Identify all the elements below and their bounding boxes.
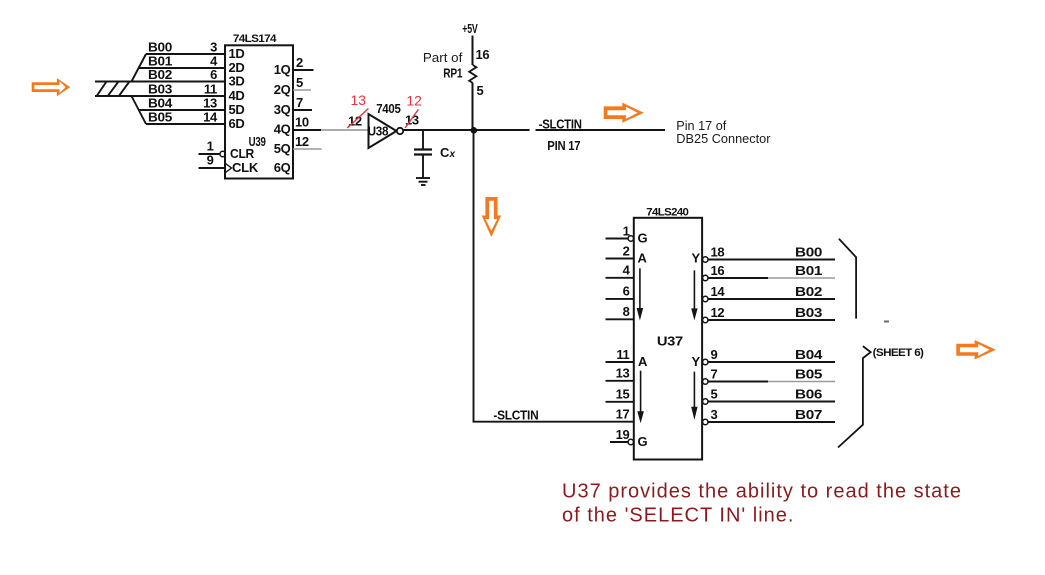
orange arrow (bus input, left) — [32, 78, 70, 96]
svg-text:of the 'SELECT IN' line.: of the 'SELECT IN' line. — [562, 505, 794, 527]
svg-text:+5V: +5V — [462, 21, 478, 36]
svg-text:1D: 1D — [229, 46, 245, 61]
U37 output pin 3 bubble and wire B07 — [703, 407, 835, 425]
wire B05 to U39 pin 14 — [146, 123, 226, 125]
svg-text:B05: B05 — [148, 110, 172, 125]
svg-text:8: 8 — [623, 304, 630, 319]
U37 pin 4 input — [606, 263, 635, 278]
svg-text:RP1: RP1 — [443, 66, 462, 81]
svg-text:B02: B02 — [795, 284, 822, 299]
svg-text:5D: 5D — [229, 102, 245, 117]
U37 lower-left direction arrow — [637, 371, 644, 424]
resistor RP1 (part of) — [469, 65, 476, 83]
svg-text:12: 12 — [711, 305, 725, 320]
wire B00 to U39 pin 3 — [146, 53, 226, 55]
svg-text:13: 13 — [203, 96, 217, 111]
svg-text:U37 provides the ability to re: U37 provides the ability to read the sta… — [562, 481, 962, 503]
wire bus fan-out top diagonal — [132, 54, 147, 82]
svg-text:6: 6 — [210, 67, 217, 82]
svg-text:13: 13 — [616, 366, 630, 381]
wire -SLCTIN into U37 pin 17 — [473, 421, 634, 423]
IC U39 74LS174 body — [225, 45, 293, 178]
svg-text:1: 1 — [207, 139, 214, 154]
U37 output pin 18 bubble and wire B00 — [703, 244, 835, 262]
svg-text:10: 10 — [295, 115, 309, 130]
U37 output pin 7 bubble and wire B05 — [703, 366, 835, 384]
svg-text:14: 14 — [203, 110, 218, 125]
svg-text:G: G — [638, 231, 648, 246]
U37 pin 11 input A — [606, 347, 649, 369]
svg-text:Pin 17 of: Pin 17 of — [676, 119, 727, 133]
svg-text:Y: Y — [692, 354, 701, 369]
U37 upper-left direction arrow — [637, 268, 644, 320]
svg-text:2Q: 2Q — [274, 82, 291, 97]
svg-text:3: 3 — [210, 40, 217, 55]
svg-text:16: 16 — [711, 263, 725, 278]
U37 pin 6 input — [606, 284, 635, 299]
svg-text:G: G — [638, 434, 648, 449]
svg-text:-SLCTIN: -SLCTIN — [493, 408, 538, 423]
svg-text:13: 13 — [351, 92, 367, 108]
U37 output pin 16 bubble and wire B01 — [703, 263, 835, 281]
svg-text:x: x — [449, 149, 456, 160]
U37 output pin 9 bubble and wire B04 — [703, 347, 835, 365]
junction node — [471, 127, 478, 134]
svg-text:12: 12 — [295, 134, 309, 149]
bracket upper (B00-B03 group) — [839, 239, 856, 319]
svg-text:14: 14 — [711, 284, 726, 299]
svg-text:B00: B00 — [148, 40, 172, 55]
svg-text:3Q: 3Q — [274, 102, 291, 117]
svg-text:7: 7 — [296, 95, 303, 110]
svg-text:B06: B06 — [795, 386, 822, 401]
svg-text:CLK: CLK — [232, 160, 259, 175]
svg-text:A: A — [638, 251, 648, 266]
U37 output pin 14 bubble and wire B02 — [703, 284, 835, 302]
red slash over input pin number — [347, 109, 368, 129]
svg-text:B07: B07 — [795, 407, 822, 422]
svg-text:74LS240: 74LS240 — [646, 206, 688, 218]
svg-text:A: A — [638, 354, 648, 369]
svg-text:5Q: 5Q — [274, 141, 291, 156]
svg-text:B03: B03 — [148, 82, 172, 97]
U39 input labels 1D-6D — [229, 46, 245, 131]
svg-text:15: 15 — [616, 387, 630, 402]
U37 pin 2 input A — [606, 243, 648, 265]
svg-text:6Q: 6Q — [274, 160, 291, 175]
svg-text:PIN 17: PIN 17 — [547, 138, 580, 153]
U39 CLR input pin 1 — [199, 139, 255, 162]
wire +5V to resistor — [472, 36, 474, 66]
svg-text:B02: B02 — [148, 67, 172, 82]
svg-text:17: 17 — [616, 407, 630, 422]
svg-text:5: 5 — [477, 83, 484, 98]
U39 output pin 5 stub — [293, 89, 311, 91]
U39 output pin 7 stub — [293, 109, 312, 111]
svg-text:16: 16 — [476, 47, 490, 62]
svg-text:11: 11 — [204, 82, 217, 97]
svg-text:B03: B03 — [795, 305, 822, 320]
IC U37 74LS240 body — [634, 218, 702, 460]
svg-text:1Q: 1Q — [274, 62, 291, 77]
bracket stray dash — [884, 321, 889, 323]
red slash over output pin number — [405, 109, 418, 128]
U37 pin 1 input G (enable) — [606, 223, 648, 245]
ground — [416, 178, 430, 185]
svg-text:Part of: Part of — [423, 51, 463, 65]
svg-text:5: 5 — [296, 75, 303, 90]
svg-text:74LS174: 74LS174 — [233, 33, 278, 45]
wire junction down to U37 pin 17 — [473, 130, 475, 422]
wire resistor to junction — [472, 83, 474, 130]
svg-text:6: 6 — [623, 284, 630, 299]
orange arrow (to DB25 connector) — [604, 103, 644, 123]
svg-text:6D: 6D — [229, 116, 245, 131]
svg-text:9: 9 — [711, 347, 718, 362]
U37 upper-right direction arrow — [691, 270, 697, 320]
svg-text:B04: B04 — [148, 96, 173, 111]
svg-text:4Q: 4Q — [274, 122, 291, 137]
svg-text:DB25 Connector: DB25 Connector — [676, 132, 770, 146]
svg-text:7405: 7405 — [376, 101, 400, 116]
U39 output pin 2 stub — [293, 69, 314, 71]
svg-text:2: 2 — [623, 243, 630, 258]
svg-text:3D: 3D — [229, 74, 245, 89]
svg-text:11: 11 — [616, 347, 629, 362]
wire bus fan-out bottom diagonal — [132, 96, 147, 124]
svg-text:7: 7 — [711, 366, 718, 381]
svg-text:4D: 4D — [229, 88, 245, 103]
wire -SLCTIN to DB25 pin 17 — [474, 129, 530, 131]
inverter U38 7405 triangle — [369, 114, 397, 148]
svg-text:(SHEET 6): (SHEET 6) — [873, 347, 925, 359]
svg-text:C: C — [440, 145, 450, 160]
U37 lower-right direction arrow — [691, 372, 697, 420]
svg-text:1: 1 — [623, 223, 630, 238]
U37 pin 8 input — [606, 304, 635, 319]
U39 output pin 12 stub — [293, 148, 322, 150]
orange arrow (down, to U37) — [482, 197, 501, 237]
bus (hatched data bus) — [95, 82, 132, 97]
svg-text:Y: Y — [692, 251, 701, 266]
svg-text:19: 19 — [616, 427, 630, 442]
svg-text:12: 12 — [406, 93, 422, 109]
U37 pin 19 input G (enable) — [610, 427, 648, 449]
U37 pin 15 input — [606, 387, 635, 402]
svg-text:B01: B01 — [795, 263, 822, 278]
capacitor Cx — [414, 130, 456, 178]
orange arrow (sheet 6, far right) — [956, 340, 996, 360]
wire B02 to U39 pin 6 — [132, 81, 226, 83]
U39 output labels 1Q-6Q — [274, 62, 291, 175]
svg-text:5: 5 — [711, 386, 718, 401]
U37 pin 13 input — [606, 366, 635, 381]
svg-text:CLR: CLR — [230, 146, 255, 161]
svg-text:18: 18 — [711, 244, 725, 259]
wire inverter output to junction node — [403, 129, 473, 131]
svg-text:-SLCTIN: -SLCTIN — [539, 117, 582, 132]
wire B03 to U39 pin 11 — [132, 95, 226, 97]
svg-text:B00: B00 — [795, 244, 822, 259]
U37 output pin 5 bubble and wire B06 — [703, 386, 835, 404]
svg-text:9: 9 — [207, 153, 214, 168]
svg-text:U37: U37 — [657, 334, 683, 349]
U37 output pin 12 bubble and wire B03 — [703, 305, 835, 323]
svg-text:B05: B05 — [795, 366, 822, 381]
svg-text:B04: B04 — [795, 347, 823, 362]
svg-text:3: 3 — [711, 407, 718, 422]
wire B01 to U39 pin 4 — [139, 67, 226, 69]
svg-text:2: 2 — [296, 55, 303, 70]
bracket lower (B04-B07 group) with tip — [838, 346, 871, 447]
wire U39 pin 10 to inverter U38 — [293, 129, 321, 131]
svg-text:U38: U38 — [368, 124, 389, 139]
U39 CLK input pin 9 — [199, 153, 259, 176]
wire B04 to U39 pin 13 — [139, 109, 226, 111]
inverter U38 output bubble — [397, 128, 403, 134]
svg-text:4: 4 — [623, 263, 631, 278]
